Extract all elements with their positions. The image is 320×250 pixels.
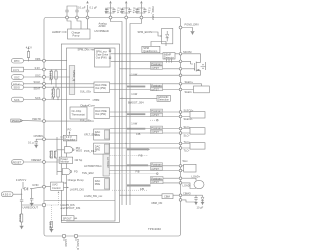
wire GD row <box>120 97 158 99</box>
svg-text:PWR_SPM: PWR_SPM <box>151 7 155 20</box>
svg-text:F/B: F/B <box>136 170 140 174</box>
dashed LAGP3 SPOUT disable <box>45 191 80 210</box>
svg-text:4.5/5 V: 4.5/5 V <box>3 193 11 197</box>
capacitor C5 <box>20 200 23 210</box>
svg-text:xW Sp: xW Sp <box>75 158 83 162</box>
right edge pin CBMS <box>179 199 182 202</box>
connector 3.3V <box>12 67 24 72</box>
svg-text:SLO-: SLO- <box>184 133 190 137</box>
diode D2 <box>23 182 43 190</box>
right edge pin W+ <box>179 159 188 167</box>
wire charge pump to VCP pin <box>87 18 89 30</box>
svg-text:F/B: F/B <box>140 187 144 191</box>
wire SLO rows <box>110 129 180 134</box>
svg-text:Detection: Detection <box>158 98 170 102</box>
label Digital Core <box>81 103 96 107</box>
supply bypass group 1 (VDD) <box>104 1 121 16</box>
pin CP2 <box>76 16 79 19</box>
svg-text:HLBDP: HLBDP <box>52 30 61 34</box>
label 1kW row1 <box>131 92 137 96</box>
wire regulator column <box>57 137 64 175</box>
wire LOAD rows <box>163 178 179 183</box>
right edge pin SLEO2+ <box>179 108 194 113</box>
node HLBDP label <box>52 30 67 34</box>
gray strip SPWF <box>69 66 76 95</box>
pin VDD <box>109 16 112 19</box>
svg-text:SCS: SCS <box>35 96 41 100</box>
right edge pin MCOM <box>179 50 191 55</box>
label F/B row2 <box>139 153 143 157</box>
label F/B row1 <box>136 132 140 136</box>
label ACTDMP/TR <box>84 164 102 168</box>
svg-text:AGND: AGND <box>64 239 68 247</box>
junction dots bus <box>121 61 130 196</box>
IC U1 outer boundary <box>44 18 181 237</box>
svg-text:RESET: RESET <box>13 161 22 165</box>
right edge pin TLO+ <box>179 140 190 145</box>
left pin XRS <box>43 59 46 62</box>
connector SCLK <box>12 82 24 87</box>
wire XWLTD <box>23 117 43 121</box>
bus wire VDD5 vertical <box>125 19 127 205</box>
wire CBM rows <box>120 194 180 196</box>
IC U1 part number label <box>148 227 161 231</box>
gray strip ACTDMP <box>103 154 110 176</box>
postman pair row3 <box>151 109 163 117</box>
block CBM <box>151 194 173 205</box>
svg-text:LOAD+: LOAD+ <box>192 174 201 178</box>
svg-text:3.3/5.5 V: 3.3/5.5 V <box>16 178 27 182</box>
right edge pin SLEO+ <box>179 80 193 85</box>
wire GHS row <box>120 68 180 70</box>
svg-text:xxTST: xxTST <box>151 130 159 134</box>
wire UVIN pin to UV control <box>45 186 50 188</box>
label xW Sp <box>75 158 83 162</box>
svg-text:WDG: WDG <box>76 149 82 153</box>
transistor Q1 external FET <box>182 54 206 75</box>
label MID_INL <box>84 149 97 153</box>
postman pair row1 <box>151 62 163 70</box>
wire SCLK <box>24 80 43 84</box>
load L4 <box>182 143 205 149</box>
internal pullup resistors group2 <box>51 87 60 99</box>
svg-text:CBMO: CBMO <box>183 191 191 195</box>
svg-text:10 µF: 10 µF <box>197 205 204 209</box>
label XFLT_EN2 <box>84 132 97 136</box>
pin PVDD <box>140 16 143 19</box>
svg-text:SLEO-: SLEO- <box>185 90 193 94</box>
right edge pin W- <box>179 169 182 172</box>
svg-text:3.3/8 kΩ: 3.3/8 kΩ <box>49 71 53 81</box>
block GD GND detection <box>157 95 170 102</box>
svg-text:10 µF: 10 µF <box>104 7 108 14</box>
label PD WDG LWR <box>76 146 82 153</box>
right edge pin SLEO- <box>179 88 192 94</box>
wire W rows <box>110 166 180 171</box>
svg-text:1 kW: 1 kW <box>131 92 137 96</box>
resistor R2 bottom left <box>18 210 23 226</box>
svg-text:XWLTD: XWLTD <box>32 117 41 121</box>
left pin 3.3V <box>43 68 46 71</box>
block DAC PRE 1 <box>94 82 110 93</box>
svg-text:Postman: Postman <box>151 62 162 66</box>
capacitor CPREG 0.1uF <box>28 134 43 148</box>
capacitor C6 and ground <box>30 189 34 207</box>
block SPM gate drive <box>95 49 111 68</box>
pin VDD5 <box>125 16 128 19</box>
label 3.3/5.5V <box>16 178 27 182</box>
right edge pin SHS <box>179 74 182 77</box>
svg-text:0.1 µ: 0.1 µ <box>147 7 151 13</box>
square pad UVREG <box>43 204 46 207</box>
svg-text:LOAD-: LOAD- <box>183 183 191 187</box>
svg-text:xxTST: xxTST <box>151 66 159 70</box>
label PGND_DRV <box>185 23 200 27</box>
svg-text:Pump: Pump <box>73 34 80 38</box>
wire SLEO rows <box>110 84 180 90</box>
svg-text:Out (PW): Out (PW) <box>95 112 106 116</box>
svg-text:SUL_0Sx: SUL_0Sx <box>80 90 92 94</box>
svg-text:0.1 µF: 0.1 µF <box>90 5 98 9</box>
label LOAD_SW <box>84 194 103 198</box>
wide block row6 <box>151 176 164 184</box>
bus bundle bar row W <box>127 164 148 166</box>
label BMOOT_0Sx <box>128 101 144 105</box>
svg-text:SCS: SCS <box>14 98 20 102</box>
wire left pins into core <box>45 61 94 162</box>
label SPM_ECON <box>138 30 162 37</box>
svg-text:xxTST: xxTST <box>151 180 159 184</box>
bus bundle bar row LOAD <box>127 184 151 186</box>
svg-text:On-Chip: On-Chip <box>72 109 82 113</box>
svg-text:PGND_D: PGND_D <box>76 239 80 250</box>
left pin XWLTD <box>43 120 46 123</box>
right edge pin SLO+ <box>179 125 190 130</box>
wire PGND_DRV to ground <box>182 28 193 32</box>
block 3.3V regulator <box>63 135 77 141</box>
pin VCP <box>86 16 89 19</box>
bus wire PVDD vertical <box>130 19 141 205</box>
wire LOAD_SW row <box>45 200 116 202</box>
left pin SCLK <box>43 82 46 85</box>
load L1 <box>182 84 210 93</box>
svg-text:UVIN: UVIN <box>32 183 38 187</box>
svg-text:CPWRG: CPWRG <box>34 134 44 138</box>
left pin SCS <box>43 98 46 101</box>
wire SHS row <box>130 74 179 76</box>
zener clamp box D1 <box>162 28 173 43</box>
postman pair row4 <box>151 126 163 134</box>
svg-text:CBM: CBM <box>164 195 170 199</box>
right edge pin GHS <box>179 68 182 71</box>
bus bundle bar row SLEO <box>127 86 145 88</box>
block DAC PRE 4 <box>94 143 110 154</box>
pad PGND <box>75 235 80 250</box>
connector SDIO <box>12 85 24 90</box>
svg-text:Control: Control <box>52 186 61 190</box>
svg-text:SDAT: SDAT <box>34 87 41 91</box>
internal pullup resistors group3 <box>49 151 58 158</box>
dashed row signal 2 <box>112 189 148 191</box>
svg-text:POS_INL2: POS_INL2 <box>84 149 97 153</box>
right edge pin LOAD+ <box>179 174 200 179</box>
svg-text:Detector: Detector <box>164 55 174 59</box>
wire SDIO <box>24 87 43 91</box>
label Charge Pump arrow <box>64 178 85 184</box>
ground bottom left <box>20 226 24 229</box>
right edge pin LOAD- <box>179 182 190 188</box>
wire XRESET <box>24 158 43 162</box>
left pin SDIO <box>43 86 46 89</box>
label SPM_DVx <box>78 48 95 52</box>
wire TLO rows <box>110 144 180 149</box>
svg-text:Postman: Postman <box>151 163 162 167</box>
regulator block PO <box>68 128 72 135</box>
svg-text:1 kW: 1 kW <box>131 121 137 125</box>
BEMF detector block <box>163 53 175 63</box>
resistor R pulldown SPOUT <box>49 222 53 230</box>
inner module rect B <box>67 48 116 221</box>
block SPOUT <box>62 216 78 221</box>
wire UVREG/OUT <box>22 205 43 209</box>
right edge pin TLO- <box>179 147 189 153</box>
wire VBAT junction <box>13 189 22 200</box>
wire RTO to XRS <box>24 57 43 61</box>
svg-text:3.3V: 3.3V <box>35 66 41 70</box>
right edge pin SLO- <box>179 132 189 138</box>
svg-text:ACTDMP/TRxx: ACTDMP/TRxx <box>84 164 102 168</box>
svg-text:10 kΩ: 10 kΩ <box>53 151 57 158</box>
connector PWRGD <box>11 119 23 123</box>
svg-text:AVDD: AVDD <box>99 24 106 28</box>
pullup on XRS wire <box>26 46 32 62</box>
right edge pin SLEO2- <box>179 115 193 121</box>
label xTBM <box>93 98 100 102</box>
label PD2 <box>74 170 78 174</box>
svg-text:and SPOUT_DIS: and SPOUT_DIS <box>61 206 81 210</box>
left pin OSC <box>43 76 46 79</box>
svg-text:xxTST: xxTST <box>151 113 159 117</box>
ground PGND_DRV <box>191 32 195 36</box>
dashed row signal 1 <box>110 173 159 175</box>
svg-text:RTO: RTO <box>14 59 19 63</box>
svg-text:OSC: OSC <box>14 76 20 80</box>
svg-text:TML_EN2: TML_EN2 <box>82 171 94 175</box>
label F/B row LOAD <box>136 170 145 192</box>
label LAGP3_DIS arrow <box>64 187 85 192</box>
left pin XRESET <box>43 161 46 164</box>
svg-text:SPM_DVx: SPM_DVx <box>78 48 91 52</box>
svg-text:xxTST: xxTST <box>151 87 159 91</box>
block on-chip thermostat <box>70 107 87 119</box>
block DAC PRE 3 <box>94 129 110 140</box>
bus bundle bar row SLO <box>127 128 145 130</box>
right edge pin CBMO <box>179 191 191 196</box>
svg-text:TPIC2040: TPIC2040 <box>148 227 161 231</box>
svg-text:PRE: PRE <box>95 182 101 186</box>
svg-text:10 kΩ: 10 kΩ <box>49 151 53 158</box>
label 1kW row2 <box>131 72 137 125</box>
wire charge pump to pin CP2 <box>77 18 81 30</box>
svg-text:xTBM: xTBM <box>93 98 100 102</box>
left pin CPREG <box>43 138 46 141</box>
bus bundle bar row TLO <box>127 148 150 151</box>
capacitor C1 flying cap <box>65 6 78 16</box>
svg-text:SPM_ECON: SPM_ECON <box>138 30 153 34</box>
wire SLEO2 rows <box>110 112 180 117</box>
svg-text:Charge Pump: Charge Pump <box>68 178 85 182</box>
svg-text:Wxx: Wxx <box>183 159 189 163</box>
svg-text:XRESET: XRESET <box>31 158 42 162</box>
svg-text:xxTST: xxTST <box>151 167 159 171</box>
svg-text:ACTDMP: ACTDMP <box>106 157 110 168</box>
wire 3.3V <box>24 66 43 70</box>
postman pair row2 <box>151 83 163 91</box>
svg-text:UVREG/OUT: UVREG/OUT <box>23 205 39 209</box>
pin PGND_DRV <box>179 26 182 29</box>
SPI block <box>142 46 160 53</box>
label SUL_OSx row2 <box>80 119 92 123</box>
inner module rect A <box>61 44 119 222</box>
load L2 <box>182 112 205 118</box>
svg-text:Postman: Postman <box>151 109 162 113</box>
svg-text:PO: PO <box>68 128 72 132</box>
svg-text:0.1 µF: 0.1 µF <box>78 5 86 9</box>
ground SPOUT pulldown <box>49 228 53 233</box>
capacitor C2 reservoir 0.1uF <box>86 1 89 16</box>
right edge pin GLS <box>179 60 182 63</box>
svg-text:SPWF_rg: SPWF_rg <box>72 70 76 82</box>
svg-text:10 µF: 10 µF <box>120 7 124 14</box>
pin CP1 <box>66 16 69 19</box>
label 0.1uF 0.1uF <box>78 5 97 9</box>
label SUL_OSx row1 <box>80 90 92 94</box>
svg-text:1 kW: 1 kW <box>131 72 137 76</box>
svg-text:HVVPREAD: HVVPREAD <box>95 29 109 33</box>
internal pullup resistors group1 <box>49 70 58 88</box>
label TML_EN <box>82 171 94 175</box>
svg-text:XFLT_EN2: XFLT_EN2 <box>84 132 97 136</box>
svg-text:TLO-: TLO- <box>184 148 190 152</box>
block DAC PRE 2 <box>94 108 110 119</box>
connector SCS <box>12 97 24 102</box>
wire GLS row <box>111 60 179 62</box>
left pin UVIN <box>43 185 46 188</box>
node Analog label <box>99 21 108 28</box>
svg-text:PWRGD: PWRGD <box>12 119 22 123</box>
svg-text:Out (PW): Out (PW) <box>95 86 106 90</box>
svg-text:10 µF: 10 µF <box>135 7 139 14</box>
svg-text:PD: PD <box>74 170 78 174</box>
wire SPI to zener box <box>151 42 167 47</box>
node HVVPREAD label <box>95 29 109 33</box>
svg-text:CBM_ON: CBM_ON <box>151 201 162 205</box>
svg-text:BMOOT_0S4: BMOOT_0S4 <box>128 101 144 105</box>
svg-text:0.1 µ: 0.1 µ <box>28 141 34 145</box>
svg-text:Out (PW): Out (PW) <box>96 55 107 59</box>
bus wire VDD vertical <box>111 19 123 205</box>
svg-text:LOAM_SW_xxx: LOAM_SW_xxx <box>84 194 103 198</box>
svg-text:10 kΩ x2: 10 kΩ x2 <box>51 89 55 100</box>
dotted vertical to pulldown <box>50 205 52 221</box>
svg-text:D8 kΩ: D8 kΩ <box>18 214 22 221</box>
svg-text:Regulator: Regulator <box>64 137 75 141</box>
load L3 <box>182 128 205 134</box>
CBMO external cap and zener D3 <box>182 195 204 209</box>
gate G2 <box>62 169 72 175</box>
charge pump U2 <box>68 29 91 39</box>
block DAC PRE 5 <box>94 178 110 190</box>
supply bypass group 3 (PVDD) <box>135 1 155 20</box>
svg-text:Postman: Postman <box>151 126 162 130</box>
svg-text:Thermostat: Thermostat <box>72 112 85 116</box>
svg-text:LAGP3_DIS: LAGP3_DIS <box>70 187 84 191</box>
gate G1 <box>64 147 74 153</box>
postman pair row5 <box>151 163 163 171</box>
wire OSC <box>24 73 43 77</box>
svg-text:SDIO: SDIO <box>14 86 20 90</box>
wire SCS <box>24 96 43 100</box>
svg-text:SCLK: SCLK <box>34 80 41 84</box>
svg-text:QuadComm: QuadComm <box>143 49 157 53</box>
block power monitor <box>59 157 72 164</box>
load coil LOAD <box>182 178 204 189</box>
wire charge pump to pin CP1 <box>67 18 71 30</box>
svg-text:F/B: F/B <box>136 132 140 136</box>
wire MCOM row <box>111 53 179 55</box>
svg-text:XRS: XRS <box>35 57 41 61</box>
connector OSC <box>12 75 24 80</box>
svg-text:Postman: Postman <box>151 83 162 87</box>
connector RTO <box>12 58 24 63</box>
svg-text:Monitor: Monitor <box>60 160 69 164</box>
pad AGND <box>63 235 68 247</box>
bus bundle bar row SLEO2 <box>127 113 145 115</box>
supply bypass group 2 (VDD5) <box>120 1 137 16</box>
dashed row signal 3 <box>110 155 148 157</box>
block UV control <box>51 182 64 190</box>
svg-text:PGND_DRV: PGND_DRV <box>185 23 200 27</box>
svg-text:3.3 V: 3.3 V <box>13 68 19 72</box>
svg-text:SPOUT: SPOUT <box>63 217 72 221</box>
svg-text:OSC: OSC <box>35 73 41 77</box>
connector 4.5V <box>1 192 13 197</box>
dashed end marker pair3 <box>150 119 158 121</box>
svg-text:D8 kΩ: D8 kΩ <box>49 222 53 229</box>
connector RESET <box>12 160 24 165</box>
load L5 <box>182 164 196 172</box>
svg-text:SUL_0Sx: SUL_0Sx <box>80 119 92 123</box>
svg-text:Postman: Postman <box>151 176 162 180</box>
